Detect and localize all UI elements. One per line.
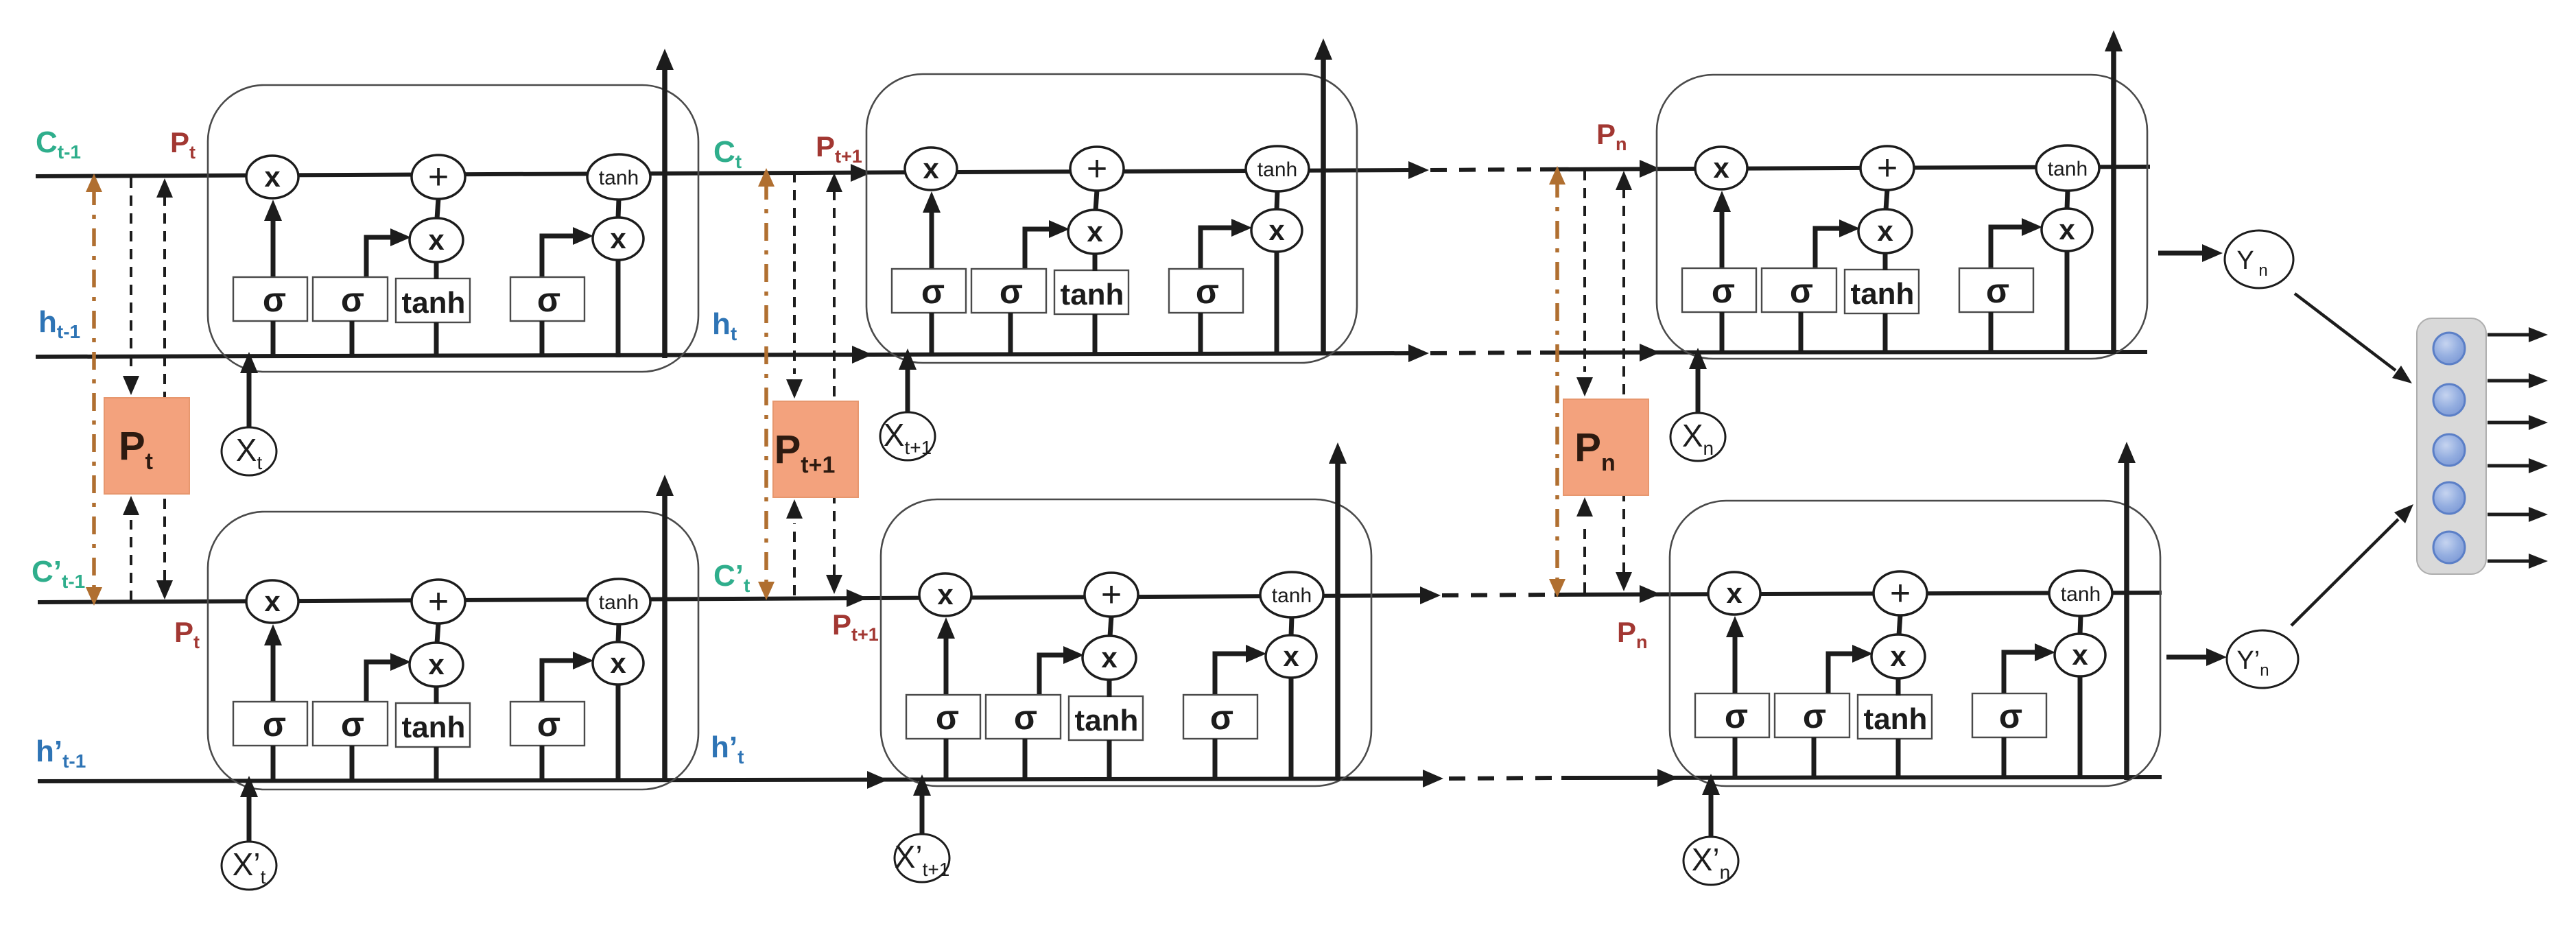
dense output layer gray box: [2417, 318, 2486, 574]
wire sigma1 stem (L2b (time t+1, backward)): [944, 739, 949, 780]
gate sigma-3 output (L3 (time n, forward)): [1959, 268, 2033, 312]
wire sigma3 stem (L3b (time n, backward)): [2002, 737, 2007, 779]
svg-text:+: +: [1877, 148, 1898, 188]
wire sigma2 stem (L3 (time n, forward)): [1799, 312, 1804, 353]
wire dashed link B out of P (P_t column): [156, 178, 173, 599]
wire C-bus top row (cell state line): [36, 160, 2150, 182]
op tanh-circle (L3b (time n, backward)): [2049, 571, 2112, 616]
wire orange dash-dot state link (P_t column): [86, 174, 102, 606]
svg-text:σ: σ: [936, 698, 959, 737]
gate sigma-2 input (L3 (time n, forward)): [1762, 268, 1836, 312]
svg-text:tanh: tanh: [599, 591, 639, 614]
wire sigma3 stem (L1b (time t, backward)): [540, 746, 545, 781]
svg-text:σ: σ: [341, 281, 364, 319]
wire x2-to-tanhbox (L1 (time t, forward)): [434, 261, 439, 279]
wire sigma2-to-x2 elbow arrow (L1b (time t, backward)): [366, 653, 411, 701]
wire tanhbox stem (L1 (time t, forward)): [434, 322, 439, 357]
gate sigma-3 output (L1 (time t, forward)): [510, 277, 584, 321]
wire sigma3-to-x3 elbow arrow (L3 (time n, forward)): [1991, 218, 2042, 268]
wire tanhbox stem (L3b (time n, backward)): [1896, 739, 1901, 779]
svg-text:x: x: [428, 648, 445, 680]
wire input-X arrow (L1b (time t, backward)): [240, 776, 258, 844]
wire sigma2-to-x2 elbow arrow (L2b (time t+1, backward)): [1039, 646, 1084, 694]
op add (L2 (time t+1, forward)): [1070, 147, 1124, 191]
wire tanh-to-x3 (L2b (time t+1, backward)): [1291, 617, 1292, 636]
wire dense output arrow 1: [2488, 327, 2548, 342]
wire arrow to Y-prime_n: [2166, 648, 2227, 666]
wire input-X arrow (L3 (time n, forward)): [1689, 348, 1707, 415]
svg-text:σ: σ: [263, 705, 286, 744]
gate sigma-3 output (L3b (time n, backward)): [1972, 693, 2046, 737]
svg-text:x: x: [937, 578, 954, 610]
op multiply x3 (L3 (time n, forward)): [2042, 209, 2092, 251]
svg-text:x: x: [1726, 577, 1742, 609]
wire x2-to-tanhbox (L2 (time t+1, forward)): [1093, 253, 1098, 271]
wire add-to-x2 (L1 (time t, forward)): [437, 198, 438, 219]
wire input-X arrow (L1 (time t, forward)): [240, 352, 258, 429]
node input X circle (L2b (time t+1, backward)): [895, 834, 950, 882]
wire x3-to-hbus (L2b (time t+1, backward)): [1289, 677, 1294, 780]
wire h-prime-bus bottom row (hidden state line): [38, 769, 2162, 789]
svg-text:σ: σ: [1986, 272, 2009, 310]
wire sigma3 stem (L2 (time t+1, forward)): [1198, 313, 1203, 354]
wire tanhbox stem (L3 (time n, forward)): [1883, 313, 1888, 353]
svg-text:σ: σ: [921, 272, 945, 311]
wire orange dash-dot state link (P_n column): [1549, 166, 1565, 597]
wire x2-to-tanhbox (L2b (time t+1, backward)): [1107, 679, 1112, 697]
gate sigma-2 input (L3b (time n, backward)): [1775, 693, 1850, 737]
svg-text:σ: σ: [1725, 697, 1748, 735]
wire diagonal Y_n to dense layer: [2295, 294, 2412, 383]
wire dashed link B out of P (P_n column): [1616, 171, 1632, 591]
node Y_n: [2225, 230, 2293, 288]
node input X circle (L3 (time n, forward)): [1670, 413, 1725, 461]
svg-text:x: x: [1101, 641, 1118, 674]
wire sigma1-to-x1 arrow (L3b (time n, backward)): [1726, 616, 1744, 693]
wire sigma3-to-x3 elbow arrow (L3b (time n, backward)): [2004, 643, 2055, 693]
gate sigma-2 input (L2 (time t+1, forward)): [971, 269, 1046, 313]
gate sigma-1 forget (L3b (time n, backward)): [1695, 693, 1769, 737]
wire add-to-x2 (L2 (time t+1, forward)): [1096, 190, 1097, 211]
node dense neuron 3: [2433, 434, 2465, 466]
node input X circle (L1 (time t, forward)): [222, 427, 276, 475]
wire arrow to Y_n: [2158, 244, 2223, 262]
op multiply x2 (L2 (time t+1, forward)): [1068, 210, 1122, 254]
wire orange dash-dot state link (P_t+1 column): [758, 168, 775, 600]
node dense neuron 5: [2433, 532, 2465, 563]
wire dense output arrow 6: [2488, 554, 2548, 569]
op multiply x3 (L1 (time t, forward)): [593, 217, 643, 260]
op multiply x3 (L1b (time t, backward)): [593, 642, 643, 685]
svg-text:σ: σ: [1999, 697, 2022, 735]
svg-text:tanh: tanh: [402, 711, 466, 744]
gate tanh-box (L3 (time n, forward)): [1845, 270, 1919, 313]
wire input-X arrow (L3b (time n, backward)): [1702, 774, 1720, 839]
gate sigma-3 output (L2b (time t+1, backward)): [1183, 695, 1257, 739]
wire output vertical arrow (L3 (time n, forward)): [2105, 30, 2123, 354]
wire sigma2-to-x2 elbow arrow (L2 (time t+1, forward)): [1025, 220, 1070, 268]
gate tanh-box (L3b (time n, backward)): [1858, 695, 1932, 739]
wire sigma3-to-x3 elbow arrow (L1 (time t, forward)): [542, 227, 593, 276]
svg-text:x: x: [1890, 640, 1906, 672]
node dense neuron 1: [2433, 333, 2465, 364]
op multiply x2 (L1b (time t, backward)): [410, 643, 463, 687]
wire sigma1-to-x1 arrow (L1b (time t, backward)): [264, 624, 282, 701]
gate sigma-2 input (L1b (time t, backward)): [313, 702, 388, 746]
wire sigma1-to-x1 arrow (L1 (time t, forward)): [264, 200, 282, 276]
LSTM cell box L1 (time t, forward): [208, 85, 698, 372]
LSTM cell box L3b (time n, backward): [1670, 501, 2160, 786]
gate sigma-1 forget (L3 (time n, forward)): [1682, 268, 1756, 312]
wire output vertical arrow (L1b (time t, backward)): [656, 475, 674, 782]
op multiply x1 (L2 (time t+1, forward)): [905, 147, 957, 190]
LSTM cell box L3 (time n, forward): [1657, 75, 2147, 359]
svg-text:+: +: [1101, 575, 1122, 615]
svg-text:tanh: tanh: [1864, 702, 1928, 736]
wire sigma3 stem (L3 (time n, forward)): [1989, 312, 1994, 353]
wire sigma3-to-x3 elbow arrow (L2 (time t+1, forward)): [1201, 219, 1252, 268]
op add (L2b (time t+1, backward)): [1085, 573, 1138, 617]
svg-text:+: +: [428, 157, 449, 197]
op add (L3 (time n, forward)): [1860, 146, 1914, 190]
gate sigma-1 forget (L1b (time t, backward)): [233, 702, 307, 746]
node input X circle (L1b (time t, backward)): [222, 842, 276, 890]
op tanh-circle (L1 (time t, forward)): [587, 154, 650, 200]
svg-text:σ: σ: [1712, 272, 1735, 310]
wire x2-to-tanhbox (L3b (time n, backward)): [1896, 678, 1901, 696]
wire tanhbox stem (L1b (time t, backward)): [434, 747, 439, 781]
node input X circle (L3b (time n, backward)): [1683, 837, 1738, 885]
op multiply x1 (L1 (time t, forward)): [246, 156, 298, 198]
op multiply x2 (L1 (time t, forward)): [410, 218, 463, 262]
wire tanh-to-x3 (L2 (time t+1, forward)): [1277, 191, 1277, 210]
op tanh-circle (L3 (time n, forward)): [2036, 145, 2099, 191]
node dense neuron 4: [2433, 482, 2465, 514]
wire dense output arrow 3: [2488, 415, 2548, 430]
wire tanhbox stem (L2 (time t+1, forward)): [1093, 314, 1098, 354]
op tanh-circle (L2 (time t+1, forward)): [1246, 146, 1309, 191]
op multiply x3 (L3b (time n, backward)): [2055, 634, 2105, 676]
svg-text:σ: σ: [537, 705, 560, 744]
svg-text:x: x: [923, 152, 939, 185]
op multiply x2 (L3 (time n, forward)): [1858, 209, 1912, 253]
LSTM cell box L2 (time t+1, forward): [866, 74, 1357, 363]
svg-text:tanh: tanh: [402, 286, 466, 320]
wire tanh-to-x3 (L3b (time n, backward)): [2080, 615, 2081, 634]
svg-text:x: x: [610, 647, 626, 679]
gate sigma-3 output (L1b (time t, backward)): [510, 702, 584, 746]
gate tanh-box (L2b (time t+1, backward)): [1069, 696, 1143, 740]
wire h-bus top row (hidden state line): [36, 344, 2147, 364]
wire x2-to-tanhbox (L1b (time t, backward)): [434, 686, 439, 704]
wire add-to-x2 (L3 (time n, forward)): [1886, 189, 1887, 210]
svg-text:tanh: tanh: [2061, 583, 2101, 606]
wire C-prime-bus bottom row (cell state line): [38, 585, 2162, 607]
LSTM cell box L1b (time t, backward): [208, 512, 698, 790]
wire output vertical arrow (L2 (time t+1, forward)): [1314, 38, 1332, 355]
wire output vertical arrow (L2b (time t+1, backward)): [1329, 442, 1347, 781]
svg-text:tanh: tanh: [2048, 158, 2088, 180]
wire dashed link B out of P (P_t+1 column): [826, 173, 842, 594]
svg-text:+: +: [428, 582, 449, 621]
svg-text:x: x: [1713, 152, 1729, 184]
svg-text:σ: σ: [1014, 698, 1037, 737]
gate sigma-3 output (L2 (time t+1, forward)): [1169, 269, 1243, 313]
svg-text:x: x: [610, 222, 626, 254]
op multiply x1 (L3 (time n, forward)): [1695, 147, 1747, 189]
svg-text:σ: σ: [1210, 698, 1233, 737]
wire sigma3 stem (L1 (time t, forward)): [540, 321, 545, 357]
svg-text:tanh: tanh: [1061, 278, 1124, 311]
wire dense output arrow 4: [2488, 458, 2548, 473]
op multiply x2 (L3b (time n, backward)): [1871, 634, 1925, 678]
svg-text:σ: σ: [1196, 272, 1219, 311]
wire sigma2 stem (L2 (time t+1, forward)): [1008, 313, 1013, 354]
svg-text:x: x: [1268, 214, 1285, 246]
svg-text:σ: σ: [1790, 272, 1813, 310]
wire sigma1-to-x1 arrow (L3 (time n, forward)): [1713, 191, 1731, 268]
wire tanh-to-x3 (L1 (time t, forward)): [618, 199, 619, 218]
node input X circle (L2 (time t+1, forward)): [880, 412, 935, 460]
svg-text:σ: σ: [341, 705, 364, 744]
wire dense output arrow 5: [2488, 507, 2548, 522]
wire x3-to-hbus (L1 (time t, forward)): [616, 259, 621, 357]
gate tanh-box (L1 (time t, forward)): [396, 278, 470, 322]
svg-text:x: x: [1087, 215, 1103, 248]
wire input-X arrow (L2b (time t+1, backward)): [913, 774, 931, 836]
svg-text:x: x: [264, 585, 281, 617]
P-box P_t+1 column: [773, 401, 858, 497]
wire dashed link A into P (P_n column): [1576, 170, 1593, 593]
wire output vertical arrow (L3b (time n, backward)): [2118, 442, 2136, 780]
gate sigma-1 forget (L2 (time t+1, forward)): [892, 269, 966, 313]
wire x3-to-hbus (L3b (time n, backward)): [2078, 676, 2083, 779]
wire sigma3 stem (L2b (time t+1, backward)): [1213, 739, 1218, 780]
svg-text:x: x: [428, 224, 445, 256]
wire dense output arrow 2: [2488, 373, 2548, 388]
node dense neuron 2: [2433, 384, 2465, 416]
wire sigma1-to-x1 arrow (L2b (time t+1, backward)): [937, 617, 955, 694]
wire sigma3-to-x3 elbow arrow (L2b (time t+1, backward)): [1215, 645, 1266, 694]
wire add-to-x2 (L2b (time t+1, backward)): [1110, 616, 1111, 637]
wire add-to-x2 (L3b (time n, backward)): [1899, 615, 1900, 635]
gate tanh-box (L1b (time t, backward)): [396, 703, 470, 747]
op multiply x3 (L2 (time t+1, forward)): [1251, 209, 1302, 252]
svg-text:x: x: [2072, 639, 2088, 671]
gate sigma-2 input (L1 (time t, forward)): [313, 277, 388, 321]
op multiply x1 (L3b (time n, backward)): [1708, 572, 1760, 615]
op add (L3b (time n, backward)): [1874, 571, 1927, 615]
wire diagonal Y-prime_n to dense layer: [2291, 504, 2413, 626]
svg-text:σ: σ: [263, 281, 286, 319]
wire sigma3-to-x3 elbow arrow (L1b (time t, backward)): [542, 652, 593, 701]
P-box P_n column: [1563, 399, 1649, 495]
svg-text:+: +: [1890, 573, 1911, 613]
wire input-X arrow (L2 (time t+1, forward)): [899, 348, 917, 414]
svg-text:x: x: [2059, 213, 2075, 246]
wire sigma2 stem (L3b (time n, backward)): [1812, 737, 1817, 779]
wire sigma1 stem (L1b (time t, backward)): [271, 746, 276, 781]
svg-text:tanh: tanh: [1257, 158, 1297, 181]
gate sigma-1 forget (L1 (time t, forward)): [233, 277, 307, 321]
wire sigma2 stem (L1b (time t, backward)): [350, 746, 355, 781]
gate sigma-1 forget (L2b (time t+1, backward)): [906, 695, 980, 739]
wire x2-to-tanhbox (L3 (time n, forward)): [1883, 252, 1888, 270]
op add (L1 (time t, forward)): [412, 155, 465, 199]
op multiply x3 (L2b (time t+1, backward)): [1266, 635, 1316, 678]
wire x3-to-hbus (L3 (time n, forward)): [2065, 250, 2070, 353]
wire sigma1 stem (L1 (time t, forward)): [271, 321, 276, 357]
wire x3-to-hbus (L2 (time t+1, forward)): [1275, 251, 1279, 354]
gate tanh-box (L2 (time t+1, forward)): [1054, 270, 1129, 314]
op tanh-circle (L1b (time t, backward)): [587, 579, 650, 624]
wire sigma1 stem (L2 (time t+1, forward)): [930, 313, 934, 354]
wire x3-to-hbus (L1b (time t, backward)): [616, 684, 621, 781]
svg-text:σ: σ: [1000, 272, 1023, 311]
wire tanh-to-x3 (L3 (time n, forward)): [2067, 190, 2068, 209]
wire sigma2 stem (L2b (time t+1, backward)): [1023, 739, 1028, 780]
wire sigma2-to-x2 elbow arrow (L3 (time n, forward)): [1815, 219, 1860, 268]
node Y-prime_n: [2227, 630, 2298, 688]
wire sigma2 stem (L1 (time t, forward)): [350, 321, 355, 357]
LSTM cell box L2b (time t+1, backward): [881, 499, 1371, 786]
svg-text:tanh: tanh: [599, 167, 639, 189]
P-box P_t column: [104, 398, 189, 494]
svg-text:tanh: tanh: [1272, 584, 1312, 607]
wire tanhbox stem (L2b (time t+1, backward)): [1107, 740, 1112, 780]
op multiply x2 (L2b (time t+1, backward)): [1083, 636, 1136, 680]
wire sigma2-to-x2 elbow arrow (L3b (time n, backward)): [1828, 645, 1873, 693]
gate sigma-2 input (L2b (time t+1, backward)): [986, 695, 1061, 739]
wire dashed link A into P (P_t+1 column): [786, 172, 803, 595]
svg-text:+: +: [1087, 149, 1107, 189]
wire sigma2-to-x2 elbow arrow (L1 (time t, forward)): [366, 228, 411, 276]
svg-text:x: x: [1283, 640, 1299, 672]
wire add-to-x2 (L1b (time t, backward)): [437, 623, 438, 643]
wire sigma1-to-x1 arrow (L2 (time t+1, forward)): [923, 191, 941, 268]
wire dashed link A into P (P_t column): [123, 178, 139, 601]
svg-text:x: x: [1877, 215, 1893, 247]
svg-text:σ: σ: [1803, 697, 1826, 735]
svg-text:x: x: [264, 161, 281, 193]
op tanh-circle (L2b (time t+1, backward)): [1260, 572, 1323, 617]
wire tanh-to-x3 (L1b (time t, backward)): [618, 624, 619, 643]
wire sigma1 stem (L3b (time n, backward)): [1733, 737, 1738, 779]
svg-text:tanh: tanh: [1851, 277, 1915, 311]
svg-text:tanh: tanh: [1075, 704, 1139, 737]
op multiply x1 (L1b (time t, backward)): [246, 580, 298, 623]
wire sigma1 stem (L3 (time n, forward)): [1720, 312, 1725, 353]
svg-text:σ: σ: [537, 281, 560, 319]
op add (L1b (time t, backward)): [412, 580, 465, 624]
wire output vertical arrow (L1 (time t, forward)): [656, 49, 674, 358]
op multiply x1 (L2b (time t+1, backward)): [919, 573, 971, 616]
